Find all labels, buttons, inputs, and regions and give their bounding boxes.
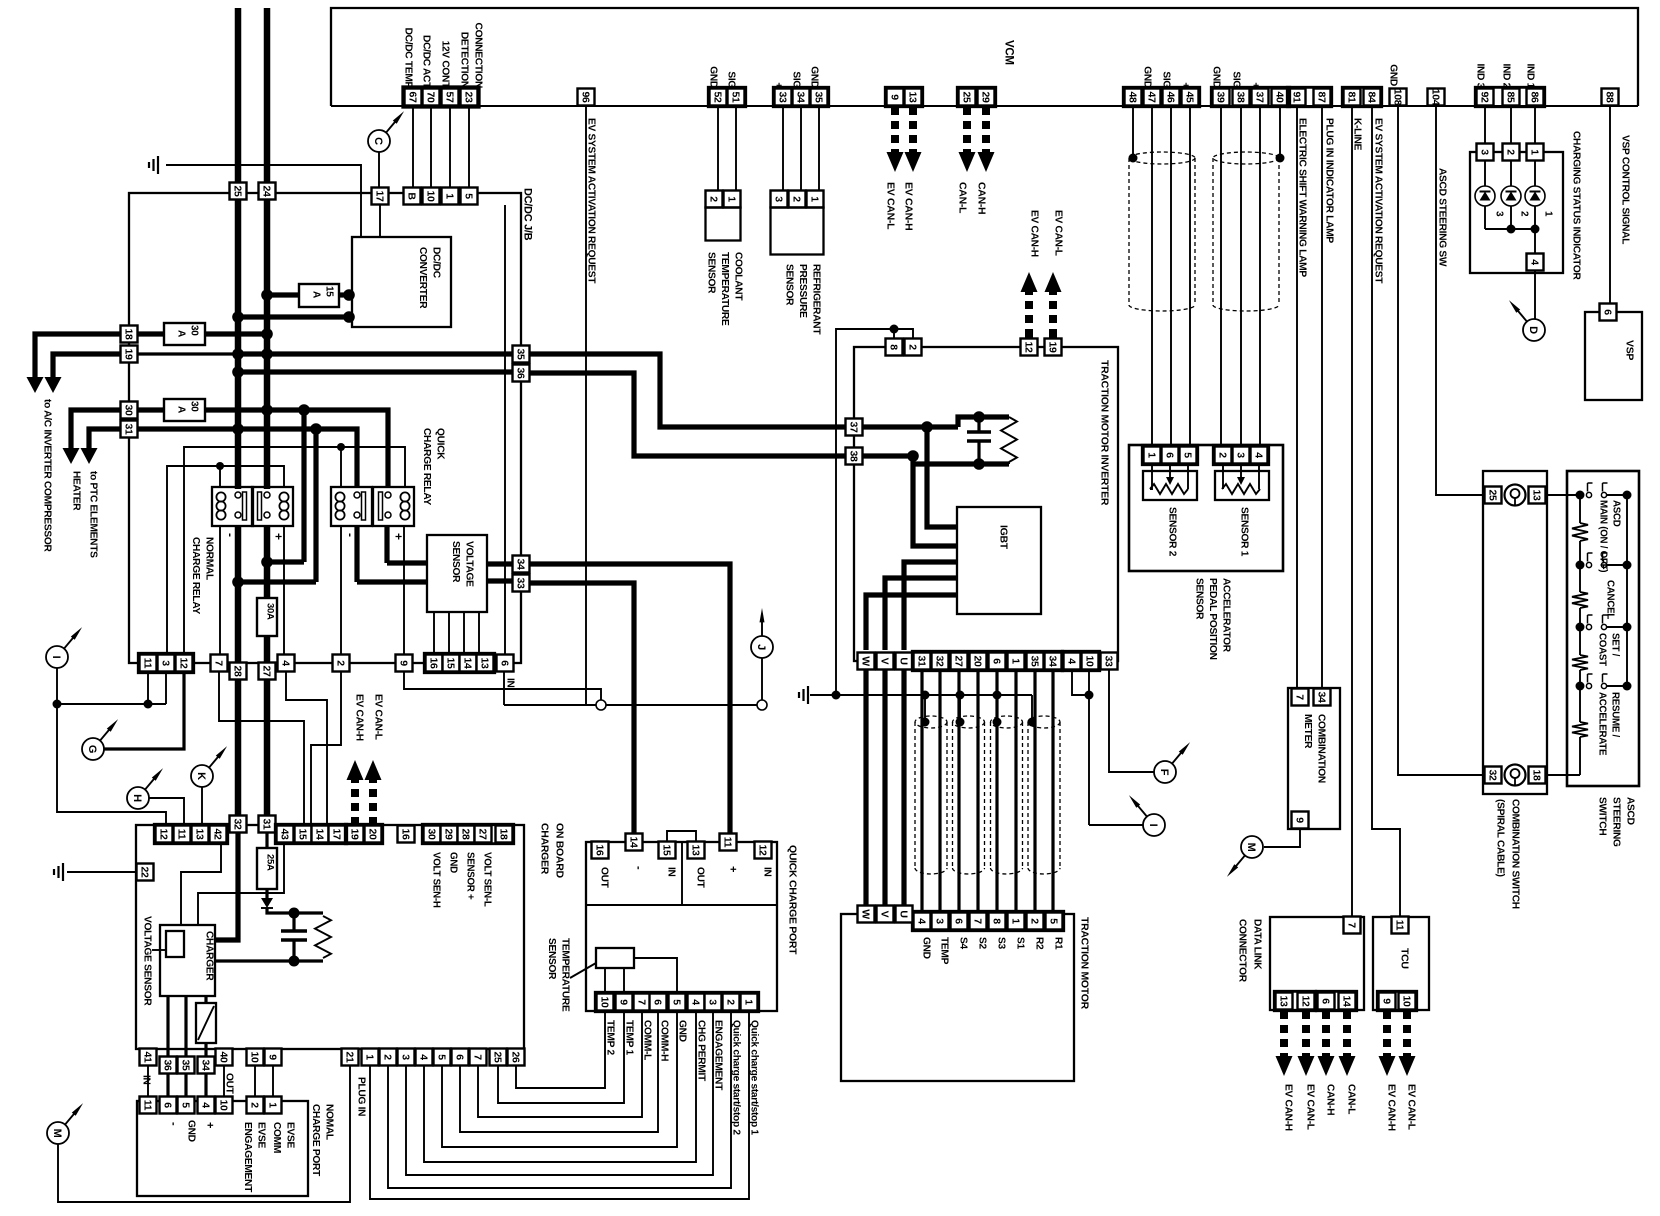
motor pin W: [858, 906, 875, 923]
svg-text:ASCD: ASCD: [1611, 500, 1622, 527]
inverter pin W: [858, 653, 875, 670]
comb switch pin 18: [1529, 767, 1546, 784]
svg-text:17: 17: [330, 828, 342, 840]
inverter top pin 8: [886, 339, 903, 356]
J/B bottom pin group frames: [138, 653, 193, 672]
svg-text:2: 2: [1216, 452, 1228, 458]
svg-text:13: 13: [1530, 489, 1542, 501]
svg-text:9: 9: [1293, 817, 1305, 823]
coolant sensor pin 1: [724, 191, 741, 208]
thick 32 feed into charger: [215, 832, 238, 940]
svg-text:V: V: [878, 658, 890, 665]
VCM pin 86: [1527, 89, 1544, 106]
svg-text:7: 7: [635, 999, 647, 1005]
wire to circle D: [1534, 271, 1536, 319]
svg-text:6: 6: [1163, 452, 1175, 458]
svg-text:31: 31: [260, 818, 272, 830]
OBC bottom pin 36: [160, 1057, 177, 1074]
shield cylinder 4: [1028, 716, 1060, 728]
svg-text:27: 27: [476, 828, 488, 840]
OBC bottom pin 4: [416, 1049, 433, 1066]
inverter pin V: [877, 653, 894, 670]
motor wire x=940: [938, 670, 941, 913]
connector circle M (right): [1241, 836, 1263, 858]
wire VCM 52 to coolant sensor 2: [717, 106, 719, 190]
svg-text:(SPIRAL CABLE): (SPIRAL CABLE): [1495, 799, 1506, 877]
charge port pin 6: [160, 1097, 177, 1114]
CHARGING STATUS INDICATOR box: [1470, 152, 1563, 273]
coolant sensor pin 2: [706, 191, 723, 208]
svg-text:35: 35: [179, 1059, 191, 1071]
svg-text:30: 30: [189, 325, 200, 336]
svg-text:W: W: [859, 656, 871, 666]
DLC pin 14: [1339, 993, 1356, 1010]
svg-text:3: 3: [1234, 452, 1246, 458]
VCM pin 67: [405, 89, 422, 106]
svg-text:2: 2: [707, 196, 719, 202]
svg-text:5: 5: [670, 999, 682, 1005]
svg-text:COAST: COAST: [1597, 633, 1608, 666]
wire 87 to combination meter 34: [1321, 106, 1323, 689]
svg-text:2: 2: [1504, 149, 1516, 155]
LED 2: [1510, 161, 1512, 186]
motor pin 3: [932, 913, 949, 930]
svg-text:ASCD STEERING SW: ASCD STEERING SW: [1437, 168, 1448, 267]
OBC top pin 27: [475, 826, 492, 843]
VCM pin 37: [1252, 89, 1269, 106]
svg-text:COMM: COMM: [271, 1122, 282, 1153]
motor wire x=997: [995, 670, 998, 913]
svg-text:33: 33: [776, 91, 788, 103]
svg-text:6: 6: [1319, 998, 1331, 1004]
svg-text:1: 1: [1528, 149, 1540, 155]
svg-text:S4: S4: [958, 937, 969, 949]
svg-text:12: 12: [157, 828, 169, 840]
J/B right pin 35: [513, 346, 530, 363]
wire OBC 406 to QCP 713: [406, 1010, 713, 1175]
APPS sensor2 pin 6: [1162, 447, 1179, 464]
QCP pin 15: [659, 842, 676, 859]
svg-text:10: 10: [248, 1051, 260, 1063]
connector circle G: [82, 738, 104, 760]
svg-text:+: +: [727, 866, 739, 872]
OBC top pin 30: [424, 826, 441, 843]
VCM pin 39: [1213, 89, 1230, 106]
wire 43 to charger: [198, 843, 284, 925]
svg-text:COMM-H: COMM-H: [659, 1020, 670, 1061]
J/B bottom pin 15: [443, 655, 460, 672]
svg-text:GND: GND: [708, 66, 719, 88]
svg-text:V: V: [878, 911, 890, 918]
svg-text:2: 2: [381, 1054, 393, 1060]
svg-text:S3: S3: [996, 937, 1007, 949]
svg-text:SENSOR: SENSOR: [450, 541, 461, 583]
wire RC to charger: [215, 959, 294, 962]
DLC/TCU pin group frames: [1274, 991, 1315, 1010]
svg-text:6: 6: [651, 999, 663, 1005]
QCP bottom pin 1: [741, 994, 758, 1011]
svg-text:9: 9: [266, 1054, 278, 1060]
svg-text:TCU: TCU: [1399, 948, 1411, 969]
svg-text:29: 29: [979, 91, 991, 103]
J/B bottom pin 13: [477, 655, 494, 672]
ground wire to converter: [166, 165, 361, 237]
charge port pin 5: [178, 1097, 195, 1114]
svg-text:25: 25: [1486, 489, 1498, 501]
svg-text:SENSOR: SENSOR: [546, 938, 557, 980]
svg-text:CHARGE PORT: CHARGE PORT: [310, 1104, 321, 1177]
svg-text:35: 35: [1028, 655, 1040, 667]
svg-text:15: 15: [444, 657, 456, 669]
svg-text:6: 6: [161, 1102, 173, 1108]
OBC top pin 14: [312, 826, 329, 843]
motor pin 7: [970, 913, 987, 930]
svg-text:J: J: [755, 644, 767, 650]
inverter bottom pin 1: [1008, 653, 1025, 670]
svg-text:GND: GND: [1211, 66, 1222, 88]
svg-text:31: 31: [122, 423, 134, 435]
svg-text:108: 108: [1391, 89, 1403, 106]
OBC top pin 13: [192, 826, 209, 843]
APPS pin group frames: [1142, 445, 1197, 464]
J/B bottom pin 14: [460, 655, 477, 672]
svg-text:10: 10: [217, 1099, 229, 1111]
svg-text:9: 9: [397, 660, 409, 666]
motor pin 1: [1008, 913, 1025, 930]
right rail: [1626, 495, 1628, 686]
svg-text:3: 3: [772, 196, 784, 202]
OBC top pin 20: [365, 826, 382, 843]
svg-text:TRACTION MOTOR INVERTER: TRACTION MOTOR INVERTER: [1099, 360, 1111, 506]
J/B bottom pin 27: [259, 663, 276, 680]
APPS sensor1 pin 4: [1251, 447, 1268, 464]
wire H to OBC 11: [149, 798, 184, 826]
svg-text:3: 3: [159, 660, 171, 666]
VCM pin 57: [442, 89, 459, 106]
TCU pin 10: [1399, 993, 1416, 1010]
ground symbol center: [799, 686, 808, 704]
QCP bottom pin 5: [669, 994, 686, 1011]
svg-text:DATA LINK: DATA LINK: [1252, 919, 1263, 970]
svg-text:TEMP: TEMP: [939, 937, 950, 965]
svg-text:EV CAN-L: EV CAN-L: [1053, 210, 1064, 256]
motor pin group frame: [912, 911, 1063, 930]
relay coil feed from pin 12: [184, 447, 405, 654]
svg-text:W: W: [859, 909, 871, 919]
arrow to PTC elements heater (30): [71, 410, 121, 450]
svg-text:16: 16: [593, 844, 605, 856]
VCM pin 34: [793, 89, 810, 106]
svg-text:5: 5: [462, 193, 474, 199]
svg-text:96: 96: [579, 91, 591, 103]
svg-text:13: 13: [689, 844, 701, 856]
svg-text:Quick charge start/stop 1: Quick charge start/stop 1: [749, 1020, 760, 1135]
svg-text:EV CAN-H: EV CAN-H: [1283, 1084, 1294, 1131]
svg-text:10: 10: [1083, 655, 1095, 667]
svg-text:G: G: [86, 745, 98, 753]
motor pin 6: [951, 913, 968, 930]
svg-text:COMBINATION SWITCH: COMBINATION SWITCH: [1510, 799, 1521, 909]
svg-text:14: 14: [313, 828, 325, 840]
svg-text:6: 6: [453, 1054, 465, 1060]
OBC bottom pin 7: [470, 1049, 487, 1066]
inverter bottom pin group frame: [912, 651, 1062, 670]
svg-text:11: 11: [141, 1100, 153, 1111]
svg-text:33: 33: [1102, 655, 1114, 667]
svg-text:37: 37: [1253, 91, 1265, 103]
wire 81 K-line to DLC 7: [1351, 106, 1353, 916]
connector circle H: [127, 787, 149, 809]
OBC bottom pin 1: [362, 1049, 379, 1066]
svg-text:CHARGER: CHARGER: [204, 931, 215, 981]
relay4 coil to pin 9: [403, 526, 405, 654]
svg-text:4: 4: [1065, 658, 1077, 664]
J/B bottom pin 3: [158, 655, 175, 672]
J/B bottom pin 11: [140, 655, 157, 672]
svg-text:6: 6: [952, 918, 964, 924]
connector circle J: [751, 636, 773, 658]
thick wire 34 to quick charge port 11: [530, 564, 730, 833]
svg-text:PEDAL POSITION: PEDAL POSITION: [1207, 578, 1218, 660]
OBC top pin 42: [210, 826, 227, 843]
DC/DC J/B box: [129, 193, 521, 663]
svg-text:45: 45: [1183, 91, 1195, 103]
J/B right pin 33: [513, 575, 530, 592]
wire K to OBC 13: [201, 787, 203, 826]
APPS sensor2 pin 1: [1144, 447, 1161, 464]
svg-text:VOLT SEN-H: VOLT SEN-H: [431, 852, 442, 908]
svg-text:34: 34: [514, 558, 526, 570]
svg-text:6: 6: [498, 660, 510, 666]
svg-text:SIG: SIG: [726, 71, 737, 88]
svg-text:QUICK: QUICK: [435, 428, 446, 460]
wires 8/2 to ground line: [894, 329, 913, 338]
OBC top pin 15: [295, 826, 312, 843]
inverter bottom pin 32: [932, 653, 949, 670]
svg-text:7: 7: [1345, 922, 1357, 928]
svg-text:EV CAN-L: EV CAN-L: [373, 694, 384, 740]
wire 13 to switch rail: [1546, 494, 1580, 496]
svg-text:12: 12: [756, 844, 768, 856]
svg-text:GND: GND: [186, 1120, 197, 1142]
svg-text:CAN-H: CAN-H: [1325, 1084, 1336, 1115]
svg-text:7: 7: [971, 918, 983, 924]
connector circle K: [191, 765, 213, 787]
thick 38 node to RC and IGBT: [863, 453, 913, 458]
EV CAN-H up arrow: [1021, 272, 1038, 338]
inverter top pin 19: [1045, 339, 1062, 356]
inverter bottom pin 6: [989, 653, 1006, 670]
wire from DC/DC J/B pin 9: [404, 672, 601, 700]
thick line 34: bus B tap to 30-row riser: [267, 559, 304, 564]
wires OBC to charge port: [147, 1065, 149, 1097]
svg-text:H: H: [131, 794, 143, 802]
OBC top pin group frames: [154, 824, 227, 843]
svg-text:48: 48: [1126, 91, 1138, 103]
QCP bottom pin group frame: [595, 992, 758, 1011]
svg-text:EV CAN-H: EV CAN-H: [1029, 210, 1040, 257]
svg-text:1: 1: [443, 193, 455, 199]
VCM pin 40: [1272, 89, 1289, 106]
svg-text:12: 12: [1022, 341, 1034, 353]
svg-text:M: M: [51, 1129, 63, 1138]
OBC bottom pin 25: [490, 1049, 507, 1066]
VCM pin 33: [775, 89, 792, 106]
QCP bottom pin 3: [705, 994, 722, 1011]
connector circle C: [368, 130, 390, 152]
svg-text:EV CAN-H: EV CAN-H: [354, 694, 365, 741]
svg-text:2: 2: [790, 196, 802, 202]
wire 31 row to relay 3: [138, 429, 357, 487]
svg-text:33: 33: [514, 577, 526, 589]
inverter bottom pin 34: [1045, 653, 1062, 670]
TRACTION MOTOR INVERTER box: [854, 347, 1118, 661]
svg-text:31: 31: [915, 655, 927, 667]
svg-text:5: 5: [1047, 918, 1059, 924]
J/B bottom pin 16: [426, 655, 443, 672]
svg-text:1: 1: [1009, 918, 1021, 924]
charge port pin 10: [216, 1097, 233, 1114]
svg-text:IN: IN: [505, 678, 516, 688]
svg-text:ACCELERATOR: ACCELERATOR: [1221, 578, 1232, 653]
svg-text:1: 1: [363, 1054, 375, 1060]
wire VCM 96 EV system activation request: [585, 106, 587, 705]
svg-text:30: 30: [425, 828, 437, 840]
svg-text:CAN-L: CAN-L: [957, 182, 969, 214]
wire G to J/B 12: [104, 672, 184, 749]
svg-text:SIG: SIG: [791, 71, 802, 88]
connector circle I (left): [46, 646, 68, 668]
svg-text:to PTC ELEMENTS: to PTC ELEMENTS: [88, 471, 99, 558]
wire 84 to TCU 11: [1372, 106, 1400, 916]
svg-text:ENGAGEMENT: ENGAGEMENT: [242, 1122, 253, 1193]
riser from 31-row: [313, 429, 318, 582]
HV bus A (thick vertical): [235, 8, 242, 489]
svg-text:4: 4: [279, 660, 291, 666]
svg-text:EV CAN-L: EV CAN-L: [1305, 1084, 1316, 1130]
VCM pin 52: [710, 89, 727, 106]
arrow (19): [53, 354, 121, 379]
refrigerant sensor pin 1: [807, 191, 824, 208]
EV CAN-L arrow from VCM 9: [887, 106, 904, 172]
wire 42 to charger: [181, 843, 221, 925]
refrigerant sensor pin 3: [771, 191, 788, 208]
svg-text:37: 37: [847, 421, 859, 433]
svg-text:27: 27: [952, 655, 964, 667]
J/B bottom pin 9: [396, 655, 413, 672]
node line to J circle: [504, 704, 757, 706]
CSI pin 3: [1477, 144, 1494, 161]
VCM pin 104: [1428, 89, 1445, 106]
wire bus A row to converter: [238, 314, 352, 319]
svg-text:TEMP 2: TEMP 2: [605, 1020, 616, 1055]
wires VCM 92/85/86 down: [1484, 106, 1486, 144]
svg-text:PRESSURE: PRESSURE: [797, 264, 808, 318]
VCM control module box: [331, 8, 1638, 106]
svg-text:85: 85: [1504, 91, 1516, 103]
svg-text:10: 10: [598, 996, 610, 1008]
svg-text:87: 87: [1315, 91, 1327, 103]
svg-text:CAN-H: CAN-H: [976, 182, 988, 214]
VOLTAGE SENSOR box: [427, 535, 487, 612]
svg-text:IN: IN: [141, 1075, 152, 1085]
NOMAL CHARGE PORT box: [137, 1101, 308, 1196]
VCM pin 47: [1144, 89, 1161, 106]
connector circle D: [1523, 319, 1545, 341]
wire J/B 7 to OBC 15: [219, 672, 304, 826]
diode: [265, 889, 268, 898]
VCM pin 9: [887, 89, 904, 106]
svg-text:51: 51: [729, 91, 741, 103]
svg-text:I: I: [50, 656, 62, 659]
wire bus B to 15A fuse to converter: [267, 292, 299, 297]
svg-text:CONNECTION: CONNECTION: [473, 23, 484, 88]
QUICK CHARGE PORT box: [586, 842, 777, 1011]
svg-text:OUT: OUT: [599, 867, 610, 889]
svg-text:IN: IN: [666, 867, 677, 877]
VCM pin 108: [1390, 89, 1407, 106]
svg-text:4: 4: [689, 999, 701, 1005]
inverter bottom pin 4: [1064, 653, 1081, 670]
resistor: [294, 911, 323, 914]
OBC top pin 32: [230, 816, 247, 833]
svg-text:U: U: [897, 657, 909, 664]
svg-text:CAN-L: CAN-L: [1346, 1084, 1357, 1114]
connector circle F: [1154, 761, 1176, 783]
svg-text:25: 25: [960, 91, 972, 103]
svg-text:CHARGING STATUS INDICATOR: CHARGING STATUS INDICATOR: [1571, 131, 1582, 280]
comb switch pin 25: [1485, 487, 1502, 504]
motor pin 2: [1027, 913, 1044, 930]
arrow to A/C inverter compressor (18): [35, 334, 121, 379]
charge port pin 1: [265, 1097, 282, 1114]
coolant temperature sensor body: [706, 208, 741, 241]
svg-text:5: 5: [179, 1102, 191, 1108]
OBC top pin 29: [441, 826, 458, 843]
wire I / 11 / 3 net: [56, 668, 58, 704]
HV bus B (thick vertical): [264, 8, 271, 489]
svg-text:VSP: VSP: [1624, 340, 1636, 360]
fuse 15A: [299, 284, 339, 307]
svg-text:CONNECTOR: CONNECTOR: [1237, 919, 1248, 983]
DLC pin 12: [1298, 993, 1315, 1010]
svg-text:1: 1: [1145, 452, 1157, 458]
comb switch pin 13: [1529, 487, 1546, 504]
svg-text:A: A: [176, 330, 187, 337]
LED 3: [1484, 161, 1486, 186]
normal charge relay contact - (relay 1): [212, 487, 253, 526]
svg-text:11: 11: [1393, 920, 1405, 931]
svg-text:29: 29: [442, 828, 454, 840]
CSI pin 1: [1527, 144, 1544, 161]
svg-text:21: 21: [343, 1051, 355, 1063]
svg-text:40: 40: [217, 1051, 229, 1063]
wire VCM 88 to VSP: [1609, 106, 1611, 304]
VCM pin 87: [1314, 89, 1331, 106]
QCP bottom pin 7: [634, 994, 651, 1011]
COMBINATION SWITCH box: [1483, 471, 1547, 794]
svg-text:RESUME /: RESUME /: [1610, 692, 1621, 738]
inverter pin 37: [846, 419, 863, 436]
svg-text:SIG: SIG: [1161, 71, 1172, 88]
svg-text:K-LINE: K-LINE: [1352, 118, 1363, 151]
svg-text:SENSOR: SENSOR: [706, 252, 717, 294]
svg-text:1: 1: [808, 196, 820, 202]
relay coil feed from pin 3: [167, 466, 284, 654]
inverter bottom pin 35: [1027, 653, 1044, 670]
charger outputs: [166, 996, 169, 1057]
VCM pin 25: [959, 89, 976, 106]
